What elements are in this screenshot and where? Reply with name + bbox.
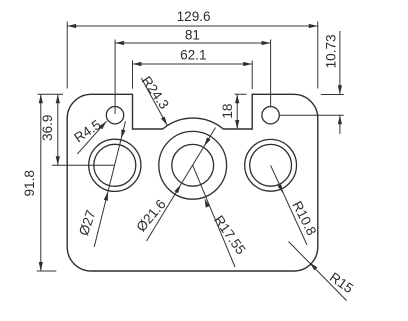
svg-text:36.9: 36.9 [40, 115, 55, 141]
svg-text:129.6: 129.6 [177, 9, 211, 24]
svg-text:91.8: 91.8 [22, 170, 37, 196]
svg-text:18: 18 [220, 104, 235, 119]
svg-text:10.73: 10.73 [324, 34, 339, 68]
svg-text:62.1: 62.1 [180, 48, 206, 63]
svg-text:81: 81 [185, 27, 200, 42]
